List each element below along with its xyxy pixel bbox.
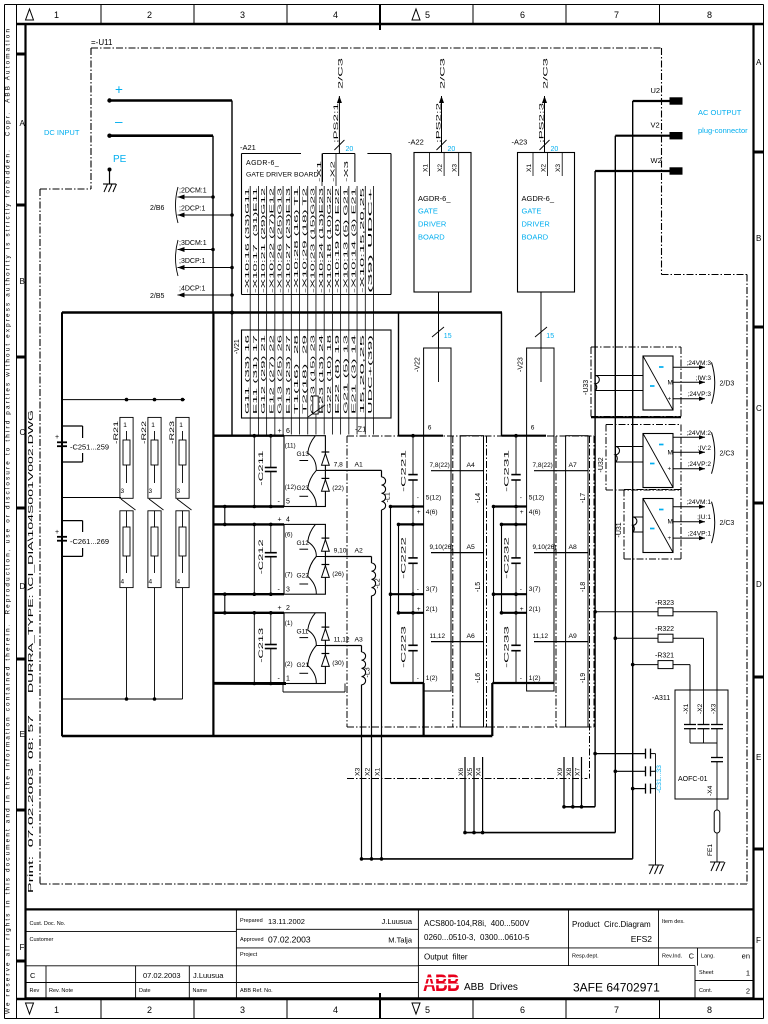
ABB logo [423,970,518,997]
svg-text:0260...0510-3, 0300...0610-5: 0260...0510-3, 0300...0610-5 [424,933,530,942]
svg-text:1(2): 1(2) [529,675,541,682]
svg-text:X3: X3 [355,767,362,776]
svg-text:-V22: -V22 [415,357,422,372]
svg-text:5(12): 5(12) [529,495,544,502]
svg-text:plug-connector: plug-connector [698,126,748,135]
connector V21 [234,330,391,418]
svg-text:C: C [756,404,762,413]
svg-text:20: 20 [346,146,354,153]
stage3 minus riser to bottom bus [491,683,493,736]
svg-text:-L3: -L3 [365,667,372,677]
svg-text:-U32: -U32 [598,457,605,472]
svg-text:;2DCP:1: ;2DCP:1 [179,206,206,213]
svg-text:+: + [278,605,282,612]
svg-text:2(1): 2(1) [529,606,541,613]
svg-text:-: - [520,675,522,682]
svg-text:6: 6 [531,425,535,432]
DC INPUT label [44,128,80,137]
capacitor A311 X4 [711,743,723,810]
svg-text:2/D3: 2/D3 [720,381,735,388]
svg-text:A4: A4 [467,462,476,469]
svg-text:PE: PE [113,154,127,165]
brace 2/B6 group [150,187,178,223]
svg-text:1: 1 [54,1005,59,1015]
svg-text:3: 3 [286,586,290,593]
wire node A4 A7 row [430,462,589,471]
svg-text:X1: X1 [375,767,382,776]
svg-text:D: D [756,580,762,589]
svg-text:+: + [668,535,672,542]
svg-text:(1): (1) [285,620,293,627]
svg-text:F: F [20,943,25,952]
svg-text:-L4: -L4 [475,493,482,503]
svg-text:3AFE 64702971: 3AFE 64702971 [573,981,660,995]
svg-text:A: A [20,119,26,128]
svg-text:+: + [55,434,59,441]
svg-text:-V21: -V21 [234,339,241,354]
svg-text:-L5: -L5 [475,582,482,592]
AC output terminal W2 [595,156,682,174]
svg-text:-: - [417,675,419,682]
svg-text:BOARD: BOARD [418,233,445,242]
svg-text:5: 5 [425,10,430,20]
inductor L2 [372,557,382,596]
IGBT half-bridge module phase 3 (G11/G21) [284,613,325,684]
svg-text:2/B6: 2/B6 [150,205,165,212]
reference arrow 2DCP:1 [178,206,234,218]
svg-text:(30): (30) [332,660,344,667]
wire L3 output down to X3 [361,685,363,859]
svg-text:Prepared: Prepared [240,918,263,924]
svg-text:V2: V2 [651,121,660,130]
svg-text:4: 4 [286,517,290,524]
svg-text:;24VP:3: ;24VP:3 [688,391,712,398]
ferrite FE1 [707,810,720,862]
svg-text:-C232: -C232 [504,537,511,579]
svg-text:2/C3: 2/C3 [720,520,735,527]
svg-text:M: M [668,379,673,386]
svg-text:-X2: -X2 [697,703,704,714]
svg-text:en: en [742,952,750,961]
svg-text:Cust. Doc. No.: Cust. Doc. No. [30,921,66,927]
svg-text:4: 4 [121,579,125,586]
left margin row letters and ticks [17,54,26,961]
svg-text:A9: A9 [569,633,578,640]
svg-text:4: 4 [333,1005,338,1015]
capacitor C213 [253,611,277,685]
svg-text:-C31...33: -C31...33 [656,765,663,793]
svg-text:-X4: -X4 [707,785,714,796]
AC output terminal V2 [615,121,682,139]
svg-text:X9: X9 [557,767,564,776]
svg-text:X2: X2 [437,164,444,172]
bus X4-X6 to V2 [465,832,615,834]
svg-text:(6): (6) [285,531,293,538]
A22 output wire to V22 [432,292,452,348]
svg-text:-A21: -A21 [240,143,256,152]
svg-text:A2: A2 [355,547,364,554]
reference arrow 3DCM:1 [178,240,215,252]
svg-text:3(7): 3(7) [529,586,541,593]
svg-text:M.Talja: M.Talja [388,936,413,945]
svg-text:-R322: -R322 [655,626,674,633]
choke L4 L5 L6 [460,436,483,727]
svg-text:3(7): 3(7) [426,586,438,593]
svg-text:Customer: Customer [30,937,54,943]
svg-text:;3DCM:1: ;3DCM:1 [179,240,207,247]
svg-text:;IW:3: ;IW:3 [696,375,712,382]
wire minus rail vertical [212,136,214,736]
svg-text:-R23: -R23 [169,421,176,444]
svg-text:Rev. Note: Rev. Note [49,988,73,994]
svg-text:Output filter: Output filter [424,953,468,962]
wire DC plus [107,98,232,102]
svg-text:4: 4 [177,579,181,586]
svg-text:B: B [20,277,25,286]
screen boundary dash line [347,778,587,780]
A21 pin labels X10 [245,188,374,293]
PE ground [103,168,117,193]
wire phase U2 vertical [632,101,634,859]
wire phase V2 vertical [614,136,616,833]
capacitor C212 [253,523,277,596]
svg-text:13.11.2002: 13.11.2002 [268,917,305,926]
svg-text:-C213: -C213 [258,627,265,662]
svg-text:15: 15 [444,333,452,340]
gate driver board A21 [240,143,391,295]
svg-text:FE1: FE1 [707,844,714,856]
svg-text:3: 3 [240,10,245,20]
svg-text:-A311: -A311 [652,695,670,702]
plus terminal label [115,82,123,97]
print info text (rotated) [28,410,35,893]
svg-text:;IU:1: ;IU:1 [697,514,711,521]
svg-text:(2): (2) [285,661,293,668]
wire L1 output down to X1 [381,510,383,859]
wire L2 output down to X2 [371,596,373,859]
svg-text:J.Luusua: J.Luusua [193,971,224,980]
V21 pin labels [245,334,374,414]
A23 output wire to V23 [535,292,554,348]
svg-text:AGDR-6_: AGDR-6_ [522,194,555,203]
filter block Z1 (dash-dot box) [347,425,594,779]
svg-text:X1: X1 [526,164,533,172]
svg-text:4(6): 4(6) [529,509,541,516]
RC bottom bus [62,697,183,701]
svg-text:X3: X3 [555,164,562,172]
svg-text:(11): (11) [285,443,296,450]
svg-text:Print: 07.02.2003 08: 57: Print: 07.02.2003 08: 57 [28,715,35,893]
svg-text:;24VP:2: ;24VP:2 [688,461,712,468]
capacitor C211 [253,434,277,508]
svg-text:5: 5 [286,499,290,506]
svg-text:F: F [756,936,761,945]
svg-text:-L8: -L8 [580,582,587,592]
svg-text:+: + [278,517,282,524]
wire below U33 [591,416,681,418]
cable reference PS2:1 to 2/C3 [333,56,353,153]
svg-text:X2: X2 [365,767,372,776]
svg-text:We reserve all rights in this: We reserve all rights in this document a… [5,29,12,1014]
gate driver board A23 [512,138,575,293]
svg-text:+: + [668,396,672,403]
reference arrow 4DCP:1 [178,286,234,298]
svg-text:A6: A6 [467,633,476,640]
svg-text:-L1: -L1 [385,492,392,502]
svg-text:3: 3 [121,488,125,495]
connector pins X1 X2 X3 [355,767,384,860]
svg-text:+: + [520,606,524,613]
svg-text:GATE DRIVER BOARD: GATE DRIVER BOARD [246,172,319,179]
ground below C31 [649,865,664,874]
svg-text:A3: A3 [355,636,364,643]
svg-text:Cont.: Cont. [699,988,713,994]
svg-text:DC INPUT: DC INPUT [44,128,80,137]
phase output node A2 [325,547,371,556]
svg-text:Resp.dept.: Resp.dept. [572,954,599,960]
svg-text:-C233: -C233 [504,626,511,668]
svg-text:-X1: -X1 [683,703,690,714]
RC mid bus [62,497,121,499]
svg-text:3: 3 [177,488,181,495]
svg-text:A8: A8 [569,544,578,551]
bottom minus bus [62,735,492,737]
svg-text:11,12: 11,12 [533,633,549,640]
svg-text:Rev.Ind.: Rev.Ind. [662,954,683,960]
svg-text:3: 3 [240,1005,245,1015]
connector pins X4 X5 X6 [458,757,484,834]
svg-text:X6: X6 [458,767,465,776]
phase output node A1 [325,461,381,470]
svg-text:-: - [520,586,522,593]
svg-text:4: 4 [149,579,153,586]
svg-text:6: 6 [520,10,525,20]
cable reference PS2:3 to 2/C3 [538,56,558,153]
cable reference PS2:2 to 2/C3 [435,56,455,153]
board A311 (AOFC-01) [652,690,728,799]
svg-text:2(1): 2(1) [426,606,438,613]
svg-text:-: - [278,676,281,683]
svg-text:-C221: -C221 [401,450,408,492]
svg-text:U2: U2 [651,86,661,95]
svg-text:W2: W2 [651,156,662,165]
wire plus rail vertical [230,101,234,315]
freewheel diodes phase 2 [322,538,347,578]
svg-text:7,8(22): 7,8(22) [533,462,553,469]
svg-text:;3DCP:1: ;3DCP:1 [179,258,206,265]
svg-text:2/C3: 2/C3 [339,56,345,89]
svg-text:-: - [520,495,522,502]
svg-text:-C212: -C212 [258,539,265,574]
svg-text:A7: A7 [569,462,578,469]
svg-text:;24VM:3: ;24VM:3 [686,360,711,367]
svg-text:-: - [417,495,419,502]
svg-text:;2DCM:1: ;2DCM:1 [179,188,207,195]
brace 3DC group [176,240,179,276]
bottom column strip [26,999,713,1019]
svg-text:6: 6 [286,428,290,435]
svg-text:+: + [520,509,524,516]
svg-text:1(2): 1(2) [426,675,438,682]
svg-text:Lang.: Lang. [701,954,715,960]
filter stage 3: connector V23 column, buses, caps C231-C233 [492,313,554,692]
svg-text:-C231: -C231 [504,450,511,492]
svg-text:;24VM:1: ;24VM:1 [686,499,711,506]
freewheel diodes phase 3 [322,627,350,667]
title block [26,909,754,998]
svg-text:-L7: -L7 [580,493,587,503]
svg-text:–: – [115,114,123,129]
svg-text:E: E [756,753,761,762]
svg-text:-X3: -X3 [344,161,350,182]
stage2 minus riser to bottom bus [423,683,425,736]
svg-text:Rev: Rev [30,988,40,994]
resistor R321 [631,653,690,690]
svg-text:(12): (12) [285,484,296,491]
svg-text:2: 2 [147,10,152,20]
svg-text:A: A [756,58,762,67]
svg-text:-: - [278,499,281,506]
svg-text:7,8(22): 7,8(22) [430,462,450,469]
choke L7 L8 L9 [566,436,588,727]
svg-text:X8: X8 [566,767,573,776]
svg-text:(26): (26) [332,571,344,578]
AC OUTPUT labels [698,108,748,135]
svg-text:07.02.2003: 07.02.2003 [143,971,181,980]
svg-text:+: + [417,509,421,516]
svg-text:6: 6 [520,1005,525,1015]
connector V23 label [518,348,542,382]
svg-text:-L9: -L9 [580,673,587,683]
stage1 DC bus lines [214,428,290,684]
svg-text:;PS2:3: ;PS2:3 [538,102,545,143]
boundary box =-U11 (dash-dot) [40,38,747,884]
svg-text:4(6): 4(6) [426,509,438,516]
svg-text:B: B [756,234,761,243]
connector V22 label [415,348,439,382]
svg-text:1: 1 [54,10,59,20]
svg-text:Date: Date [139,988,151,994]
svg-text:-X3: -X3 [711,703,718,714]
inductor L1 [382,470,392,509]
svg-text:9,10: 9,10 [334,547,347,554]
svg-text:9,10(26): 9,10(26) [533,544,557,551]
svg-text:1: 1 [179,422,183,429]
svg-text:J.Luusua: J.Luusua [382,917,413,926]
svg-text:2: 2 [147,1005,152,1015]
svg-text:X5: X5 [467,767,474,776]
svg-text:-C223: -C223 [401,626,408,668]
svg-text:Sheet: Sheet [699,970,714,976]
svg-text:EFS2: EFS2 [631,934,653,944]
svg-text:1: 1 [123,422,127,429]
svg-text:1: 1 [746,969,750,978]
current transducer U32 [598,425,734,491]
svg-text:-C211: -C211 [258,450,265,485]
svg-text:+: + [115,82,123,97]
svg-text:5: 5 [425,1005,430,1015]
svg-text:-R22: -R22 [141,421,148,444]
svg-text:-R21: -R21 [113,421,120,444]
svg-text:-A23: -A23 [512,138,528,147]
bus X1-X3 to U2 [362,858,633,860]
freewheel diodes phase 1 [322,452,344,492]
thermistor on T2 line [308,396,325,417]
svg-text:7: 7 [614,10,619,20]
svg-text:-L6: -L6 [475,673,482,683]
gate driver board A22 [408,138,471,293]
svg-text:2/C3: 2/C3 [441,56,447,89]
current transducer U33 [583,347,734,417]
svg-text:-L2: -L2 [375,578,382,588]
wire node A6 A9 row [430,633,589,642]
svg-text:7: 7 [614,1005,619,1015]
resistor R21 [113,417,136,699]
svg-text:ABB Ref. No.: ABB Ref. No. [240,988,273,994]
PE label [113,154,127,165]
svg-text:A5: A5 [467,544,476,551]
svg-text:AGDR-6_: AGDR-6_ [418,194,451,203]
svg-text:A1: A1 [355,461,364,468]
svg-text:Project: Project [240,952,258,958]
svg-text:=-U11: =-U11 [91,38,113,47]
svg-text:2/B5: 2/B5 [150,293,165,300]
svg-text:-U33: -U33 [583,380,590,395]
svg-text:+: + [668,466,672,473]
svg-text:AOFC-01: AOFC-01 [678,776,708,783]
svg-text:1: 1 [151,422,155,429]
svg-text:G11: G11 [297,628,309,635]
svg-text:Item des.: Item des. [662,919,685,925]
connector pins X7 X8 X9 [557,757,583,809]
svg-text:;IV:2: ;IV:2 [698,445,712,452]
svg-text:1: 1 [286,676,290,683]
svg-text:ABB: ABB [423,970,459,997]
svg-text:-: - [417,586,419,593]
phase output node A3 [325,636,363,645]
reference arrow 3DCP:1 [178,258,234,270]
svg-text:07.02.2003: 07.02.2003 [268,935,311,945]
svg-text:C: C [689,952,695,961]
svg-text:ABB Drives: ABB Drives [464,982,518,993]
svg-text:+: + [278,428,282,435]
svg-text:X2: X2 [541,164,548,172]
svg-text:X1: X1 [423,164,430,172]
svg-text:-R323: -R323 [655,600,674,607]
svg-text:;24VP:1: ;24VP:1 [688,531,712,538]
svg-text:-C251...259: -C251...259 [70,442,109,451]
svg-text:2/C3: 2/C3 [720,451,735,458]
ground below FE1 [710,862,725,871]
capacitor C261...269 [55,521,109,557]
AC output terminal U2 [633,86,682,104]
svg-text:11,12: 11,12 [430,633,446,640]
svg-text:-C261...269: -C261...269 [70,537,109,546]
A21 pin wires to V21 [250,186,373,330]
svg-text:2/C3: 2/C3 [544,56,550,89]
capacitors C31...33 [593,749,663,865]
V21 pin stubs to bus [250,330,373,435]
svg-text:DRIVER: DRIVER [522,220,551,229]
svg-text:M: M [668,449,673,456]
wire plus distribution bus [62,313,502,436]
svg-text:BOARD: BOARD [522,233,549,242]
svg-text:DURRA_TYPE: \CI_DIA\104S001V00: DURRA_TYPE: \CI_DIA\104S001V002.DWG [28,410,35,693]
svg-text:5(12): 5(12) [426,495,441,502]
RC top bus [62,398,185,402]
svg-text:E: E [20,730,25,739]
svg-text:Approved: Approved [240,937,264,943]
